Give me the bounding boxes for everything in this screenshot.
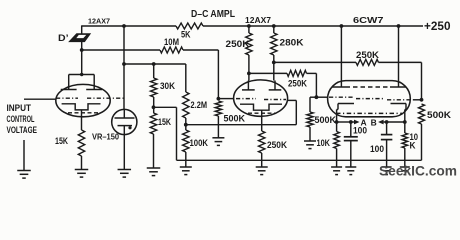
tube VR-150 regulator envelope <box>112 109 137 134</box>
svg-text:VR–150: VR–150 <box>92 132 119 142</box>
resistor 100K <box>183 130 189 152</box>
resistor 15K (divider) <box>150 113 156 134</box>
wire 10M feedback run <box>82 49 160 51</box>
svg-text:250K: 250K <box>267 140 287 150</box>
wire V2 right-grid loop <box>186 124 296 126</box>
svg-text:D’: D’ <box>58 33 69 43</box>
resistor 250K coupling lower <box>287 70 307 76</box>
node B+ / V3 right plate <box>397 24 401 28</box>
wire B+ rail to VR-150 anode <box>123 26 125 110</box>
svg-text:100: 100 <box>353 126 367 136</box>
tube V3 screen dashes <box>353 86 388 88</box>
svg-text:500K: 500K <box>224 113 246 123</box>
svg-text:100: 100 <box>370 144 384 154</box>
tube V1 heater (dashed) <box>68 112 98 114</box>
tube V1 left plate <box>61 89 77 91</box>
svg-text:12AX7: 12AX7 <box>245 15 271 25</box>
wire divider tap to bottom bus <box>154 106 177 108</box>
wire V2 cathode down <box>261 110 263 131</box>
wire 250K to plate node <box>248 55 250 81</box>
tube V1 left plate lead <box>68 75 70 90</box>
tube V3 left grid (dashed) <box>329 96 353 98</box>
resistor 500K (V3 left grid) <box>307 112 313 127</box>
wire coupling 250K run (right plate to V3 right grid) <box>274 61 356 63</box>
node junction diode/10M tap <box>80 48 84 52</box>
arrow output A <box>353 121 355 123</box>
tube VR-150 cathode <box>118 125 133 127</box>
wire 500K to floating ground <box>217 116 219 138</box>
wire 15K to ground <box>153 134 155 168</box>
wire B+ rail corner down to diode <box>81 25 83 35</box>
tube V2 cathodes <box>240 104 282 110</box>
svg-text:10M: 10M <box>164 37 179 47</box>
tube V1 right grid (dashed) to VR-150 line <box>87 97 124 99</box>
resistor 10K (B side) <box>404 122 406 133</box>
tube V2 left plate <box>242 89 255 91</box>
tube VR-150 anode <box>115 117 135 119</box>
ground (500K grid leak) <box>212 137 224 139</box>
wire 500K right to bottom bus <box>421 124 423 160</box>
tube V1 right plate lead <box>93 75 95 90</box>
wire grid node to V2 grid <box>218 98 234 100</box>
tube V1 plate tie bar <box>69 74 95 76</box>
ground (VR-150) <box>118 169 132 171</box>
tube V3 right cathode <box>391 103 407 105</box>
wire grid node to 500K <box>310 96 316 98</box>
wire cathode B run <box>384 121 405 123</box>
node 2.2M/100K junction <box>184 123 188 127</box>
svg-text:250K: 250K <box>356 50 380 60</box>
svg-text:VOLTAGE: VOLTAGE <box>7 125 38 135</box>
wire V3 right cathode down <box>404 110 406 123</box>
svg-text:B: B <box>371 117 377 127</box>
svg-text:500K: 500K <box>315 115 337 125</box>
ground (V2 cathode) <box>256 166 268 168</box>
tube V2 left grid (dashed) <box>236 98 256 100</box>
wire 2.2M to 100K <box>185 118 187 130</box>
tube V3 6CW7 envelope <box>328 81 411 117</box>
tube V3 heater (dashed) <box>336 112 402 114</box>
wire input ground stub <box>23 140 25 171</box>
op... tube V1 12AX7 envelope <box>56 84 110 116</box>
wire V3 right grid link <box>413 99 422 101</box>
svg-text:500K: 500K <box>427 110 452 120</box>
node cathode B junction <box>403 120 407 124</box>
wire VR tap to 30K chain <box>124 63 186 65</box>
diode D' (crystal diode, pictorial) <box>70 34 90 41</box>
input wire to V1 grid <box>24 98 56 100</box>
wire VR-150 cathode to ground <box>123 135 125 170</box>
svg-text:+250: +250 <box>424 19 451 33</box>
node +250 rail (B+ bus) <box>82 25 176 27</box>
resistor 250K (V2 left plate load) <box>248 26 250 33</box>
tube V2 right plate <box>269 89 282 91</box>
tube V1 cathodes <box>62 104 101 110</box>
svg-text:D–C AMPL: D–C AMPL <box>191 8 235 20</box>
node output A junction <box>349 120 353 124</box>
node B+ / 250K <box>247 24 251 28</box>
wire 2.2M feed corner <box>185 64 187 92</box>
ground (500K V3 left) <box>304 140 316 142</box>
node V2 right plate node <box>272 61 276 65</box>
tube V1 left grid (dashed) <box>56 97 78 99</box>
tube V2 12AX7 envelope <box>234 80 288 116</box>
node VR-150 / 30K tap <box>122 62 126 66</box>
tube V3 right plate <box>390 86 407 88</box>
svg-text:2.2M: 2.2M <box>191 100 208 110</box>
tube V3 left cathode <box>338 103 354 105</box>
wire cathode A run <box>337 121 353 123</box>
wire capacitor B to bus <box>386 140 388 161</box>
node 30K top <box>152 62 156 66</box>
svg-text:INPUT: INPUT <box>7 103 32 113</box>
ground (input return) <box>17 170 31 172</box>
wire grid node into V3 <box>316 96 328 98</box>
wire 30K top lead <box>153 64 155 78</box>
svg-text:280K: 280K <box>280 38 305 48</box>
resistor 5K (series in B+ rail) <box>176 23 203 29</box>
node V3 left grid node <box>315 95 319 99</box>
resistor 250K coupling upper <box>356 59 379 65</box>
svg-text:15K: 15K <box>158 117 171 127</box>
wire V3 right plate feed <box>398 26 400 87</box>
capacitor 100 (A side) <box>350 122 352 137</box>
svg-text:100K: 100K <box>190 138 209 148</box>
tube VR-150 gas dot <box>128 126 131 129</box>
tube V1 right plate <box>86 89 102 91</box>
svg-text:12AX7: 12AX7 <box>88 19 110 26</box>
node 30K/15K junction <box>152 105 156 109</box>
ground (10K B) <box>404 160 406 167</box>
wire V1 cathode down <box>81 110 83 130</box>
resistor 250K (V2 cathode) <box>259 131 265 153</box>
ground (10K A) <box>336 160 338 167</box>
wire V3 left plate feed <box>340 26 342 87</box>
ground (cap B) <box>386 160 388 167</box>
svg-text:K: K <box>410 140 416 150</box>
tube V3 mid grid dashes <box>356 98 384 100</box>
resistor 500K (V3 right grid) <box>419 104 425 124</box>
resistor 500K (V2 grid leak) <box>215 101 221 116</box>
resistor 10M <box>160 47 183 53</box>
node 10K A junction <box>335 120 339 124</box>
svg-text:SeekIC.com: SeekIC.com <box>379 162 457 178</box>
wire diode to plate tie bar <box>81 41 83 75</box>
ground (V1 cathode) <box>75 169 89 171</box>
wire V2 cathode resistor to ground <box>261 153 263 167</box>
svg-text:15K: 15K <box>55 136 68 146</box>
ground (15K divider) <box>147 167 161 169</box>
wire 30K to 15K <box>153 97 155 113</box>
node B+ / V3 left plate <box>340 24 344 28</box>
node V3 right grid/500K <box>420 98 424 102</box>
node capacitor B junction <box>385 120 389 124</box>
tube V3 right grid (dashed) <box>387 99 413 101</box>
wire 10K B to bus <box>404 148 406 160</box>
wire 100K to bottom bus <box>185 152 187 160</box>
svg-text:5K: 5K <box>181 30 191 40</box>
wire 10K A to bus <box>336 149 338 161</box>
tube V2 heater (dashed) <box>248 112 276 114</box>
svg-text:250K: 250K <box>226 39 251 49</box>
wire 15K to ground <box>81 156 83 170</box>
svg-text:30K: 30K <box>160 81 175 91</box>
node 10M/500K/V2-grid junction <box>217 97 221 101</box>
wire 500K to floating ground <box>309 127 311 141</box>
svg-text:250K: 250K <box>288 78 307 88</box>
wire coupling 250K run (left plate to V3 grid) <box>249 72 287 74</box>
node B+ rail / VR-150 tap <box>122 24 126 28</box>
resistor 280K <box>273 26 275 33</box>
wire V3 left cathode down <box>336 110 338 123</box>
wire 280K to plate node <box>273 55 275 81</box>
svg-text:10K: 10K <box>317 138 331 148</box>
wire bottom ground bus <box>177 159 422 161</box>
resistor 30K <box>151 78 157 97</box>
arrow output B <box>378 120 384 125</box>
resistor 15K (V1 cathode) <box>78 130 84 156</box>
svg-text:6CW7: 6CW7 <box>353 15 384 25</box>
resistor 2.2M <box>183 92 189 118</box>
resistor 10K (A side) <box>336 122 338 132</box>
ground (cap A) <box>350 160 352 167</box>
tube V3 left plate <box>332 86 350 88</box>
capacitor 100 (B side) <box>386 122 388 135</box>
node V2 left plate node <box>247 72 251 76</box>
svg-text:CONTROL: CONTROL <box>7 114 35 124</box>
node B+ / 280K <box>272 24 276 28</box>
wire capacitor A to bus <box>350 141 352 161</box>
tube V2 right grid (dashed) <box>264 99 286 101</box>
tube V2 right plate lead <box>274 81 276 90</box>
tube V2 left plate lead <box>247 81 249 90</box>
ground (100K) <box>185 160 187 167</box>
